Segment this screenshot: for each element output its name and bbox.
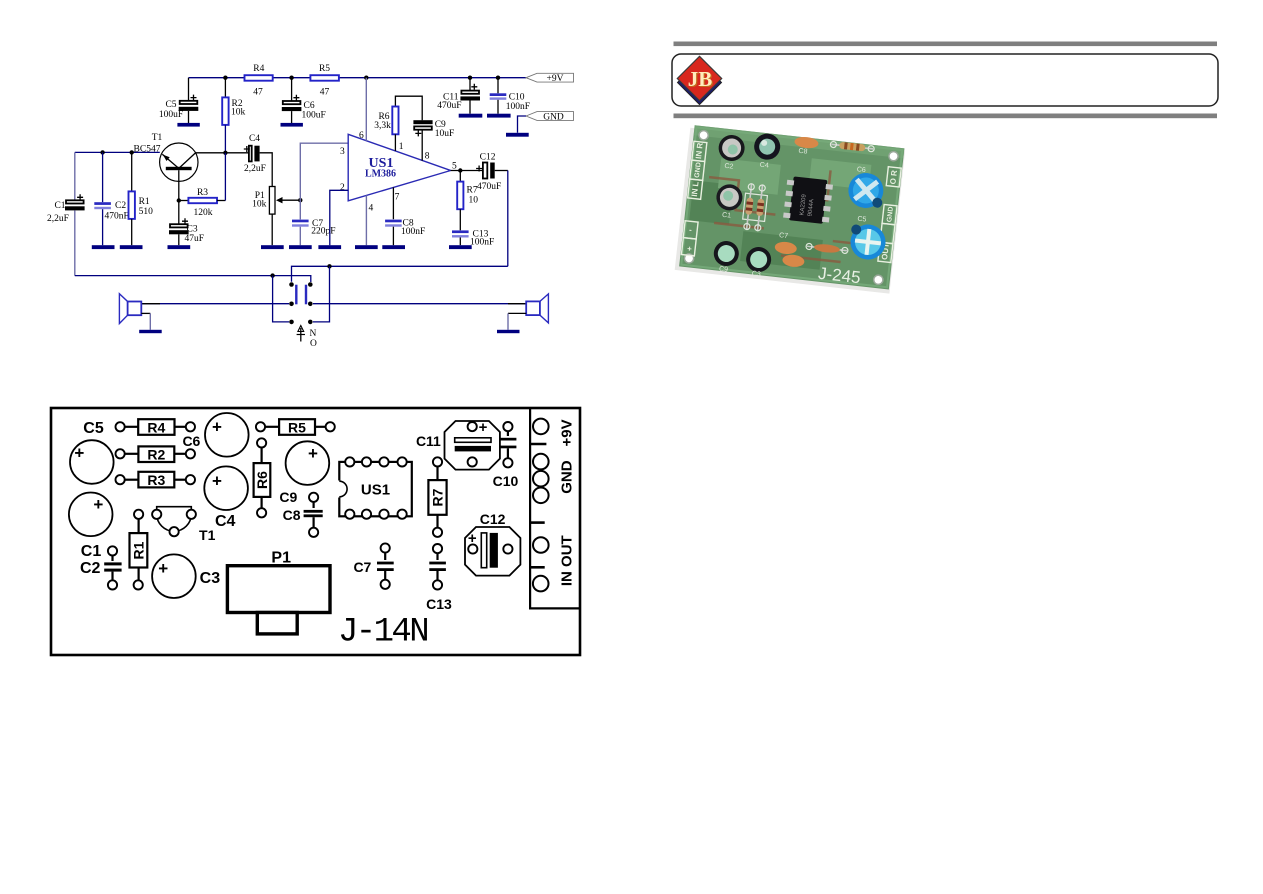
pin 7 wire	[393, 187, 399, 219]
wire right speaker line	[313, 303, 526, 305]
pcb photo shadow	[675, 128, 905, 294]
capacitor C13	[426, 544, 452, 612]
capacitor C9	[413, 120, 454, 162]
svg-text:6: 6	[359, 131, 364, 141]
wire switch right pole	[313, 266, 330, 322]
transistor T1	[134, 133, 198, 201]
svg-text:C6: C6	[182, 433, 200, 449]
capacitor C6	[282, 78, 326, 124]
svg-text:+: +	[308, 444, 318, 463]
svg-text:220pF: 220pF	[311, 227, 335, 237]
wire C5 branch	[188, 78, 190, 124]
node lineA-right-vertical	[327, 264, 331, 268]
svg-text:+: +	[158, 559, 168, 578]
capacitor C2	[94, 152, 128, 245]
header box	[672, 54, 1218, 106]
resistor R2	[222, 78, 245, 153]
svg-text:R4: R4	[253, 64, 264, 74]
capacitor C4 body	[204, 466, 248, 530]
switch SW1 bars	[296, 285, 306, 305]
node switch-left-vertical	[270, 273, 274, 277]
node wiper	[298, 198, 302, 202]
capacitor C5 body	[70, 440, 114, 484]
svg-text:100nF: 100nF	[470, 238, 494, 248]
wire input to switch	[75, 276, 311, 282]
svg-text:C5: C5	[857, 216, 867, 224]
capacitor C1 body	[69, 493, 113, 561]
svg-text:10uF: 10uF	[435, 129, 455, 139]
resistor R6	[374, 96, 422, 152]
svg-text:100uF: 100uF	[159, 110, 183, 120]
resistor R1	[129, 152, 154, 245]
op-amp US1	[348, 134, 450, 201]
svg-text:10k: 10k	[231, 108, 246, 118]
capacitor C2 photo	[716, 134, 746, 172]
ground C8	[382, 245, 405, 249]
svg-text:10: 10	[469, 196, 479, 206]
svg-text:+9V: +9V	[559, 419, 576, 446]
pcb traces	[701, 157, 880, 265]
svg-text:100nF: 100nF	[401, 227, 425, 237]
SCHEMATIC	[47, 64, 573, 349]
svg-text:R5: R5	[288, 419, 306, 435]
wire input node	[75, 151, 160, 153]
terminal +9V	[530, 419, 575, 447]
board name J-245	[817, 264, 861, 288]
node rail-C6	[289, 76, 293, 80]
svg-text:470uF: 470uF	[437, 101, 461, 111]
svg-text:T1: T1	[199, 527, 216, 543]
resistor R3	[116, 472, 195, 488]
svg-text:+: +	[74, 444, 84, 463]
resistor R5	[256, 419, 335, 435]
ground left speaker	[139, 330, 162, 333]
svg-text:C9: C9	[719, 266, 729, 274]
capacitor C1	[47, 152, 85, 275]
svg-text:C10: C10	[509, 93, 525, 103]
trimmer bottom photo	[848, 215, 888, 261]
ground right speaker	[497, 330, 520, 333]
ground C7	[289, 245, 312, 249]
connector +9V	[526, 73, 574, 84]
resistor R5	[310, 64, 339, 98]
svg-text:IN OUT: IN OUT	[559, 535, 576, 586]
ground GND connector	[506, 133, 529, 137]
capacitor C5 label	[83, 420, 104, 437]
terminal GND	[530, 454, 575, 523]
svg-text:C8: C8	[798, 148, 808, 156]
svg-text:+9V: +9V	[547, 74, 564, 84]
svg-text:3,3k: 3,3k	[374, 121, 391, 131]
corner holes	[684, 130, 899, 285]
svg-text:2,2uF: 2,2uF	[47, 214, 69, 224]
ground C2	[92, 245, 115, 249]
pin 5 wire	[451, 162, 483, 173]
svg-text:8: 8	[425, 152, 430, 162]
capacitor C6	[182, 413, 248, 457]
svg-text:7: 7	[395, 193, 400, 203]
svg-text:510: 510	[139, 207, 154, 217]
svg-text:C3: C3	[187, 225, 198, 235]
svg-text:R1: R1	[139, 197, 150, 207]
capacitor C11	[416, 419, 500, 470]
svg-text:C3: C3	[200, 570, 221, 587]
svg-text:LM386: LM386	[365, 169, 396, 180]
JB logo	[677, 56, 721, 104]
svg-text:C5: C5	[83, 420, 104, 437]
capacitor C4	[244, 134, 272, 187]
svg-text:C1: C1	[722, 212, 732, 220]
capacitor C7	[292, 219, 336, 245]
svg-text:C4: C4	[249, 134, 260, 144]
terminal OUT	[530, 537, 549, 567]
capacitor C13	[452, 229, 494, 247]
svg-text:R2: R2	[147, 447, 165, 463]
svg-text:C12: C12	[480, 153, 496, 163]
pin 6 wire	[359, 78, 366, 141]
svg-text:C2: C2	[724, 163, 734, 171]
svg-text:10k: 10k	[252, 199, 267, 209]
capacitor C8	[283, 493, 323, 537]
svg-text:100nF: 100nF	[506, 102, 530, 112]
svg-text:US1: US1	[361, 482, 390, 499]
svg-text:R4: R4	[147, 419, 165, 435]
ceramic cap C8 photo	[793, 136, 819, 157]
capacitor C11	[437, 78, 480, 114]
ground pin2	[318, 245, 341, 249]
svg-text:C9: C9	[279, 489, 297, 505]
capacitor C7	[353, 543, 393, 589]
svg-text:O R: O R	[888, 169, 899, 184]
wire collector node	[195, 151, 249, 155]
switch SW1 contacts	[289, 282, 312, 324]
resistor photo top right	[830, 141, 875, 153]
wire output line A	[292, 266, 508, 282]
capacitor C9 body	[279, 441, 329, 505]
svg-text:R1: R1	[131, 541, 147, 559]
transistor T1	[152, 507, 215, 543]
svg-text:100uF: 100uF	[302, 111, 326, 121]
svg-text:IN R: IN R	[694, 142, 705, 159]
svg-text:GND: GND	[559, 460, 576, 494]
svg-text:C10: C10	[493, 473, 519, 489]
right silkscreen connectors	[878, 167, 901, 263]
bottom gray rule	[674, 114, 1218, 119]
capacitor C2	[80, 556, 122, 590]
capacitor C1 photo	[714, 183, 744, 221]
svg-text:C1: C1	[54, 201, 65, 211]
svg-text:C7: C7	[779, 232, 789, 240]
capacitor C12	[465, 511, 520, 576]
node emitter junction	[177, 198, 181, 202]
pin 2 wire	[330, 190, 348, 245]
pin 4 wire	[366, 195, 373, 245]
svg-text:+: +	[212, 418, 222, 437]
node rail-C11	[468, 76, 472, 80]
board name J-14N	[338, 614, 427, 652]
resistor photo bottom	[806, 242, 849, 255]
svg-text:47: 47	[320, 88, 330, 98]
ground C3	[168, 245, 191, 249]
node rail-R2	[223, 76, 227, 80]
svg-text:N: N	[310, 329, 317, 339]
svg-text:C3: C3	[751, 270, 761, 278]
svg-text:3: 3	[340, 147, 345, 157]
svg-text:C7: C7	[353, 559, 371, 575]
top gray rule	[674, 42, 1218, 47]
node input-R1	[130, 150, 134, 154]
svg-text:+: +	[479, 419, 488, 436]
svg-text:470uF: 470uF	[477, 182, 501, 192]
svg-text:R6: R6	[254, 471, 270, 489]
ground pin4	[355, 245, 378, 249]
wire left speaker line	[141, 303, 289, 305]
svg-text:2,2uF: 2,2uF	[244, 164, 266, 174]
capacitor C5	[159, 95, 198, 120]
ground P1	[261, 245, 284, 249]
svg-text:+: +	[93, 495, 103, 514]
LAYOUT	[51, 408, 580, 655]
capacitor C3	[169, 201, 204, 246]
svg-text:C4: C4	[759, 162, 769, 170]
svg-text:P1: P1	[271, 550, 291, 567]
ground C10	[487, 114, 511, 118]
svg-text:GND: GND	[543, 113, 564, 123]
svg-text:BC547: BC547	[134, 145, 161, 155]
trimmer top photo	[847, 166, 886, 210]
svg-text:R7: R7	[430, 488, 446, 506]
resistor R4	[245, 64, 273, 98]
node rail-C10	[496, 76, 500, 80]
wire pin3	[300, 143, 348, 219]
svg-text:C12: C12	[480, 511, 506, 527]
svg-text:JB: JB	[688, 67, 713, 91]
resistor R3	[179, 153, 226, 218]
capacitor C10	[490, 78, 530, 114]
capacitor C3 body	[152, 554, 220, 598]
svg-text:IN L: IN L	[690, 181, 701, 197]
svg-text:C4: C4	[215, 513, 236, 530]
switch actuator symbol	[297, 326, 317, 350]
potentiometer P1	[252, 187, 300, 246]
pin 2 number	[340, 183, 345, 193]
capacitor C8	[385, 219, 425, 246]
ground C5	[177, 123, 199, 127]
wire +9V top rail	[189, 77, 527, 79]
capacitor C12	[476, 153, 508, 193]
ground C6	[281, 123, 303, 127]
connector GND	[518, 112, 574, 133]
capacitor C10	[493, 422, 519, 489]
svg-text:C2: C2	[115, 201, 126, 211]
svg-text:C11: C11	[416, 433, 441, 449]
IC US1	[339, 457, 412, 519]
svg-text:4: 4	[369, 204, 374, 214]
svg-text:R3: R3	[147, 472, 165, 488]
capacitor C9 photo	[712, 240, 740, 275]
svg-text:C1: C1	[81, 543, 102, 560]
ceramic caps bottom photo	[773, 232, 807, 268]
pcb board	[679, 125, 904, 289]
svg-text:C5: C5	[165, 100, 176, 110]
resistor R2	[116, 446, 195, 462]
capacitor C3 photo	[744, 246, 772, 280]
resistor R7	[457, 171, 478, 231]
svg-text:C6: C6	[304, 101, 315, 111]
svg-text:T1: T1	[152, 133, 163, 143]
svg-text:5: 5	[452, 162, 457, 172]
svg-text:R3: R3	[197, 188, 208, 198]
svg-text:C13: C13	[426, 596, 452, 612]
svg-text:R5: R5	[319, 64, 330, 74]
resistor R7	[428, 457, 446, 537]
svg-text:J-14N: J-14N	[338, 614, 427, 652]
resistor R1	[130, 510, 148, 590]
svg-text:C2: C2	[80, 560, 101, 577]
small resistors photo	[742, 183, 769, 231]
svg-text:47uF: 47uF	[185, 234, 205, 244]
IC US1 photo	[783, 176, 834, 225]
terminal strip	[530, 408, 580, 608]
ground R1	[120, 245, 143, 249]
svg-text:O: O	[310, 339, 317, 349]
svg-text:1: 1	[399, 142, 404, 152]
potentiometer P1	[227, 550, 330, 634]
svg-text:47: 47	[253, 88, 263, 98]
wire switch left pole	[273, 276, 289, 322]
PHOTO	[675, 124, 906, 293]
node input-C2	[100, 150, 104, 154]
svg-text:470nF: 470nF	[105, 212, 129, 222]
capacitor C1 pad	[108, 546, 117, 555]
capacitor C4 photo	[752, 132, 782, 170]
ground C11	[459, 114, 483, 118]
svg-text:C8: C8	[283, 507, 301, 523]
svg-text:120k: 120k	[194, 208, 213, 218]
svg-text:2: 2	[340, 183, 345, 193]
wire C12 to switch	[507, 171, 509, 267]
HEADER	[672, 42, 1218, 119]
ground C13	[449, 245, 472, 249]
svg-text:C6: C6	[856, 166, 866, 174]
resistor R4	[116, 419, 195, 435]
svg-text:R7: R7	[467, 186, 478, 196]
resistor R6	[254, 438, 271, 517]
svg-text:+: +	[212, 472, 222, 491]
terminal IN	[533, 535, 576, 591]
pin 3 number	[340, 147, 345, 157]
left silkscreen connectors	[681, 141, 706, 256]
speaker left	[119, 294, 150, 330]
speaker right	[508, 294, 548, 330]
board outline	[51, 408, 580, 655]
node rail-pin6	[364, 76, 368, 80]
